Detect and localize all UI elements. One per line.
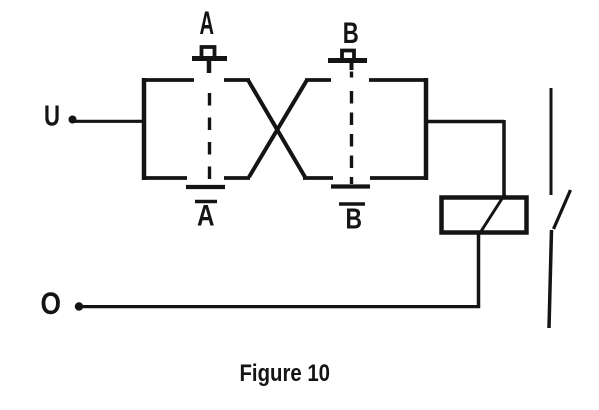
dashed actuation line B — [350, 91, 353, 184]
wire bottom rail segment 3 — [303, 176, 333, 180]
terminal dot U — [69, 116, 77, 124]
contact B hook — [342, 51, 354, 59]
wire right branch vertical — [424, 78, 429, 180]
wire top rail segment 1 — [142, 78, 194, 82]
wire output rail O — [81, 305, 480, 308]
wire crossover diagonal 1 — [248, 80, 305, 177]
dashed actuation line B upper dash — [350, 72, 353, 78]
wire relay to output — [477, 234, 481, 308]
svg-text:U: U — [44, 101, 60, 133]
contact B-bar plate — [331, 184, 370, 188]
wire bottom rail segment 4 — [370, 176, 428, 180]
terminal dot O — [75, 302, 83, 310]
wire crossover diagonal 2 — [249, 80, 307, 177]
relay coil diagonal — [478, 194, 505, 236]
wire bottom rail segment 1 — [142, 176, 187, 180]
label A-bar overbar — [195, 200, 217, 204]
dashed actuation line A — [208, 93, 211, 184]
relay coil K1 — [442, 198, 527, 233]
wire top rail segment 4 — [369, 78, 428, 82]
contact A stem — [207, 60, 212, 73]
switch S1 blade — [554, 190, 571, 229]
svg-text:B: B — [346, 204, 363, 236]
wire bottom rail segment 2 — [224, 176, 250, 180]
svg-text:A: A — [200, 5, 215, 41]
svg-text:O: O — [41, 285, 62, 321]
contact A-bar plate — [186, 185, 225, 189]
contact B crossbar — [328, 58, 367, 63]
svg-text:Figure 10: Figure 10 — [240, 360, 331, 387]
wire U input — [74, 120, 144, 123]
label B-bar overbar — [339, 202, 365, 206]
wire relay drop vertical — [502, 120, 506, 197]
wire top rail segment 3 — [305, 78, 331, 82]
wire left branch vertical — [142, 78, 147, 180]
contact A hook — [202, 47, 215, 57]
wire top rail segment 2 — [224, 78, 250, 82]
wire box to relay horizontal — [426, 120, 504, 124]
contact A crossbar — [192, 56, 227, 61]
svg-text:A: A — [197, 200, 215, 233]
switch S1 lower lead — [549, 230, 552, 328]
switch S1 fixed contact — [550, 88, 553, 195]
contact B stem — [350, 62, 354, 70]
svg-text:B: B — [343, 17, 359, 50]
